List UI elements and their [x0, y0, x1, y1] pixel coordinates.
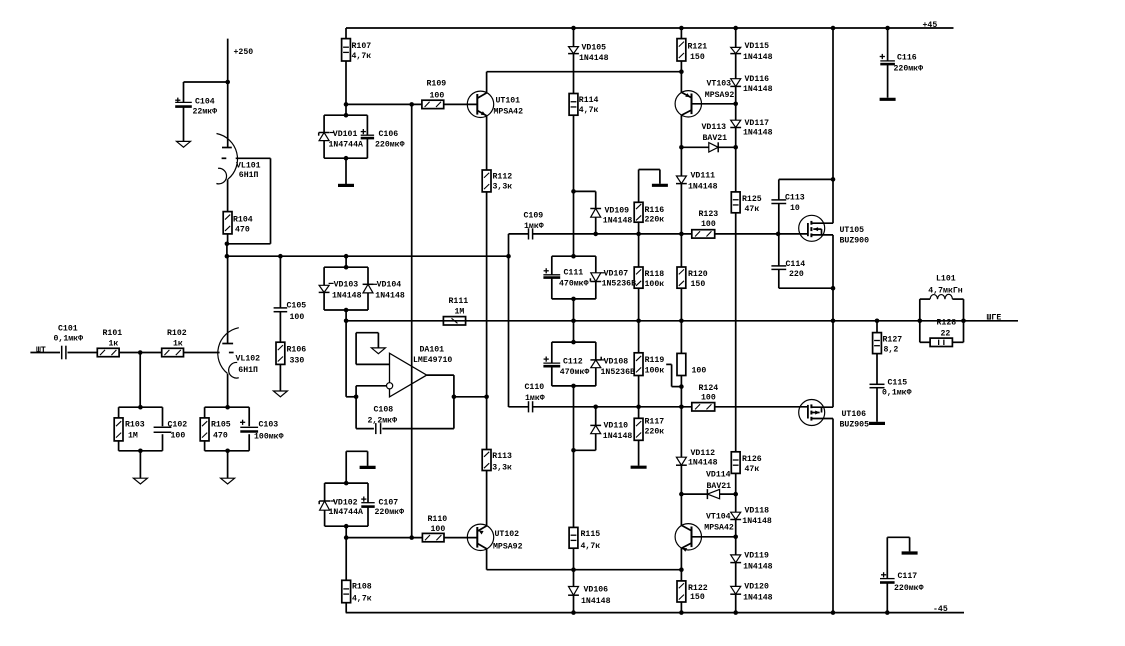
svg-text:VD101: VD101 — [333, 130, 358, 139]
svg-text:100: 100 — [692, 367, 707, 376]
node VD110 gate line — [593, 405, 598, 410]
wire VD112 to VD114 line — [680, 465, 682, 494]
svg-text:C113: C113 — [785, 193, 805, 202]
ground below VD101 box — [338, 158, 354, 185]
svg-text:1к: 1к — [109, 340, 119, 349]
diode VD109 — [590, 206, 632, 225]
svg-text:R109: R109 — [427, 80, 447, 89]
svg-text:MPSA42: MPSA42 — [494, 107, 524, 116]
capacitor C101 — [54, 325, 98, 360]
ground below R106 — [273, 364, 287, 396]
wire VD117 to VD113 node — [735, 128, 737, 148]
ground at non-inverting input — [371, 348, 385, 354]
wire -45 bottom rail — [346, 612, 964, 614]
svg-text:1N4148: 1N4148 — [332, 291, 362, 300]
wire output rail to R119 — [638, 321, 640, 353]
wire VD101 box stub — [345, 104, 347, 115]
svg-text:VD105: VD105 — [582, 44, 607, 53]
node VD101 box bottom — [344, 156, 349, 161]
wire VD119-VD120 — [735, 563, 737, 587]
wire C113 to gate node — [778, 204, 780, 234]
wire VT104 emitter — [680, 548, 682, 569]
wire VD120 to -45 — [735, 594, 737, 612]
node R127 output rail — [875, 319, 880, 324]
wire R118 to output rail — [638, 288, 640, 321]
node gate line 2 column — [679, 405, 684, 410]
wire +45 bus to drain — [832, 28, 834, 223]
wire +250 feed down to VL101 anode — [227, 39, 229, 148]
svg-text:4,7к: 4,7к — [579, 106, 599, 115]
node VT104 base chain — [733, 535, 738, 540]
svg-text:C103: C103 — [259, 421, 279, 430]
ground below R117 — [631, 440, 647, 467]
svg-text:R107: R107 — [352, 42, 372, 51]
node VD109 gate line — [593, 232, 598, 237]
svg-text:BUZ905: BUZ905 — [840, 420, 870, 429]
svg-text:6Н1П: 6Н1П — [239, 171, 259, 180]
node drain bus C113 — [831, 177, 836, 182]
diode VD106 — [568, 586, 610, 606]
wire C109 elbow — [509, 233, 529, 235]
zener VD101 — [319, 130, 363, 149]
node driver column — [484, 395, 489, 400]
wire VD118-VD119 — [735, 520, 737, 555]
svg-text:470мкФ: 470мкФ — [560, 368, 590, 377]
svg-text:8,2: 8,2 — [884, 345, 899, 354]
svg-text:100к: 100к — [645, 367, 665, 376]
wire node A down to R103/C102 — [139, 353, 141, 408]
wire source to output rail — [832, 235, 834, 321]
svg-text:C104: C104 — [195, 98, 215, 107]
node R118 output rail — [636, 319, 641, 324]
svg-text:22мкФ: 22мкФ — [193, 108, 218, 117]
svg-text:C115: C115 — [888, 378, 908, 387]
svg-text:C108: C108 — [374, 405, 394, 414]
node C116 top rail — [885, 26, 890, 31]
node anode line to C105 — [278, 254, 283, 259]
capacitor C115 — [870, 378, 912, 397]
svg-text:1N4148: 1N4148 — [375, 291, 405, 300]
wire elbow to VD110 — [574, 434, 596, 451]
wire R104 node down to anode line node — [225, 244, 230, 259]
svg-text:R115: R115 — [581, 530, 601, 539]
wire UT102 collector line — [487, 549, 682, 570]
diode VD114 BAV21 — [706, 471, 731, 499]
svg-text:VD113: VD113 — [702, 123, 727, 132]
svg-text:VD102: VD102 — [333, 499, 358, 508]
wire R113 to UT102 — [486, 471, 488, 526]
wire gate line to R120 — [680, 234, 682, 267]
wire to VD106 — [573, 570, 575, 587]
svg-text:C116: C116 — [897, 54, 917, 63]
wire coupling column — [508, 234, 510, 407]
node VD110 elbow — [571, 448, 576, 453]
svg-text:220к: 220к — [645, 428, 665, 437]
svg-text:VD117: VD117 — [745, 119, 770, 128]
svg-text:MPSA92: MPSA92 — [705, 91, 735, 100]
svg-text:R125: R125 — [742, 195, 762, 204]
svg-text:C109: C109 — [524, 212, 544, 221]
wire R125 to R126 — [735, 213, 737, 452]
svg-text:VD118: VD118 — [745, 507, 770, 516]
svg-text:R121: R121 — [688, 42, 708, 51]
svg-text:UT106: UT106 — [842, 410, 867, 419]
wire output rail to UT106 drain — [832, 321, 834, 407]
node UT101 collector line end — [679, 69, 684, 74]
zener VD107 — [590, 270, 636, 289]
wire chain from +45 — [735, 28, 737, 47]
node VD102 box bottom — [344, 524, 349, 529]
node L101 left — [918, 319, 923, 324]
wire output to R127 — [876, 321, 878, 333]
wire R119 to gate line 2 — [638, 376, 640, 407]
svg-text:R102: R102 — [167, 329, 187, 338]
node drain bus top rail — [831, 26, 836, 31]
node central bus -45 — [571, 610, 576, 615]
svg-text:6Н1П: 6Н1П — [238, 366, 258, 375]
svg-text:4,7к: 4,7к — [352, 595, 372, 604]
wire VD105 to R114 — [573, 54, 575, 94]
svg-text:C105: C105 — [287, 301, 307, 310]
wire VD102/C107 parallel box — [325, 483, 368, 526]
ground elbow above VD102 box — [346, 451, 375, 483]
wire R116 to gate line — [638, 222, 640, 234]
node anode line to coupling column — [506, 254, 511, 259]
wire VD111 to gate line — [680, 184, 682, 234]
node clamp box bottom — [344, 308, 349, 313]
svg-text:VD119: VD119 — [744, 551, 769, 560]
svg-text:VD111: VD111 — [691, 172, 716, 181]
node R110 line at bus — [409, 535, 414, 540]
wire R107 to node — [345, 61, 347, 104]
capacitor C103 polarized — [240, 420, 284, 442]
capacitor C102 — [154, 421, 188, 441]
wire C110 elbow — [509, 406, 529, 408]
svg-text:VD106: VD106 — [584, 586, 609, 595]
diode VD111 — [676, 172, 718, 192]
node chain VD114 — [733, 492, 738, 497]
svg-text:100мкФ: 100мкФ — [254, 433, 284, 442]
svg-text:1N4148: 1N4148 — [603, 432, 633, 441]
wire central bus to C111 box — [573, 191, 575, 256]
wire R126 to VD114 node — [735, 473, 737, 494]
svg-text:1N4148: 1N4148 — [743, 85, 773, 94]
svg-text:100: 100 — [171, 432, 186, 441]
wire R114 to VD109 node — [573, 115, 575, 191]
capacitor C106 polarized — [361, 129, 405, 149]
svg-text:VD109: VD109 — [605, 206, 630, 215]
label +250 — [234, 48, 254, 57]
svg-text:R123: R123 — [699, 210, 719, 219]
wire to VT104 — [680, 494, 682, 525]
resistor R125 — [731, 192, 761, 214]
wire VD113 line — [681, 146, 735, 148]
wire VD116-VD117 — [735, 86, 737, 120]
node op-amp output — [452, 395, 457, 400]
svg-text:R117: R117 — [645, 418, 665, 427]
wire inverting input — [356, 385, 386, 387]
ground below C104 — [177, 107, 191, 148]
svg-text:MPSA92: MPSA92 — [493, 542, 523, 551]
wire elbow to VD109 — [574, 191, 596, 208]
svg-text:1N4744A: 1N4744A — [329, 140, 363, 149]
wire +45 to VD105 — [573, 28, 575, 47]
svg-text:R108: R108 — [352, 583, 372, 592]
wire UT101 collector — [487, 72, 682, 93]
wire gate line 2 to R117 — [638, 407, 640, 419]
node C111 box top — [571, 254, 576, 259]
svg-text:47к: 47к — [745, 205, 760, 214]
wire C112 box down to VD110 elbow — [573, 386, 575, 450]
svg-text:R116: R116 — [645, 206, 665, 215]
wire output rail to resistor 100 — [680, 321, 682, 354]
transistor UT102 MPSA92 — [467, 524, 522, 551]
node clamp to output rail — [344, 319, 349, 324]
svg-text:100: 100 — [290, 313, 305, 322]
svg-text:1N4148: 1N4148 — [742, 517, 772, 526]
node R121 top rail — [679, 26, 684, 31]
diode VD112 — [676, 449, 718, 467]
wire VT103 base — [692, 103, 736, 105]
wire VL102 anode line — [227, 255, 509, 257]
label -45 — [933, 605, 948, 614]
svg-text:4,7к: 4,7к — [581, 542, 601, 551]
diode VD110 — [590, 422, 632, 442]
svg-text:100: 100 — [701, 393, 716, 402]
diode VD105 — [568, 44, 608, 64]
wire down to R108 — [345, 538, 347, 581]
svg-text:C110: C110 — [525, 383, 545, 392]
svg-text:R124: R124 — [699, 384, 719, 393]
svg-text:1N4148: 1N4148 — [743, 562, 773, 571]
wire gate line 2 to VD112 — [680, 407, 682, 457]
label ШТ input — [36, 346, 46, 355]
MOSFET UT106 BUZ905 — [799, 400, 869, 430]
node VD101 box top — [344, 113, 349, 118]
ground below C116 — [880, 64, 896, 99]
node gate line C113 tap — [776, 232, 781, 237]
op-amp DA101 LME49710 — [390, 345, 453, 397]
resistor R113 — [482, 450, 512, 473]
node R115 bottom — [571, 567, 576, 572]
svg-text:1N4148: 1N4148 — [688, 182, 718, 191]
wire down to C105 — [279, 256, 281, 308]
svg-text:LME49710: LME49710 — [413, 356, 452, 365]
node R120 output rail — [679, 319, 684, 324]
svg-text:3,3к: 3,3к — [492, 464, 512, 473]
svg-text:VL102: VL102 — [236, 355, 261, 364]
node UT106 -45 rail — [831, 610, 836, 615]
resistor R118 — [634, 267, 664, 289]
resistor 100 vertical — [677, 353, 706, 375]
svg-text:150: 150 — [691, 280, 706, 289]
svg-text:1N4744A: 1N4744A — [329, 508, 363, 517]
inverting input bubble — [387, 383, 393, 389]
node VT103 base chain — [733, 102, 738, 107]
svg-text:150: 150 — [690, 53, 705, 62]
svg-text:1N4148: 1N4148 — [603, 217, 633, 226]
svg-text:1N5236B: 1N5236B — [602, 279, 636, 288]
svg-text:150: 150 — [690, 593, 705, 602]
capacitor C110 — [525, 383, 545, 413]
resistor R114 — [569, 94, 598, 116]
wire VT103 collector — [680, 115, 682, 147]
node source bus C114 — [831, 286, 836, 291]
svg-text:220: 220 — [789, 270, 804, 279]
node VD114 line left — [679, 492, 684, 497]
wire UT101 emitter to R112 — [486, 116, 488, 170]
node R119 gate line — [636, 405, 641, 410]
wire gate line 2 — [533, 406, 808, 408]
diode VD120 — [730, 583, 772, 603]
wire VD110 to gate line 2 — [595, 407, 597, 426]
svg-text:ШГЕ: ШГЕ — [987, 314, 1002, 323]
svg-text:100: 100 — [431, 525, 446, 534]
transistor VT103 MPSA92 — [675, 79, 734, 117]
svg-text:1N4148: 1N4148 — [579, 54, 609, 63]
node chain VD113 — [733, 145, 738, 150]
svg-text:R106: R106 — [287, 346, 307, 355]
diode VD104 — [363, 281, 405, 301]
capacitor C104 polarized — [175, 98, 217, 117]
capacitor C116 polarized — [880, 54, 923, 74]
wire C108 loop bottom — [356, 397, 454, 429]
wire op-amp output — [427, 375, 454, 397]
svg-text:VT104: VT104 — [706, 512, 731, 521]
wire R101 to R102, node A — [119, 350, 162, 355]
resistor R105 — [200, 418, 231, 441]
node VD113 line left — [679, 145, 684, 150]
resistor R107 — [342, 28, 372, 61]
svg-text:R122: R122 — [688, 584, 708, 593]
svg-text:470мкФ: 470мкФ — [559, 279, 589, 288]
svg-text:1N4148: 1N4148 — [743, 129, 773, 138]
resistor R112 — [482, 170, 512, 192]
svg-text:R112: R112 — [493, 172, 513, 181]
node inverting branch — [354, 395, 359, 400]
wire VD114 line — [681, 493, 735, 495]
svg-text:UT105: UT105 — [840, 226, 865, 235]
node anode line to clamp — [344, 254, 349, 259]
svg-text:C111: C111 — [564, 269, 584, 278]
svg-text:4,7мкГн: 4,7мкГн — [928, 287, 962, 296]
svg-text:1N4148: 1N4148 — [581, 597, 611, 606]
wire R108 to -45 rail — [345, 603, 347, 613]
wire chain to R125 — [735, 147, 737, 192]
svg-text:1к: 1к — [173, 340, 183, 349]
wire driver column to R113 — [486, 397, 488, 450]
svg-text:VD112: VD112 — [691, 449, 716, 458]
svg-text:C117: C117 — [898, 572, 918, 581]
capacitor C113 — [771, 193, 804, 213]
node clamp box top — [344, 265, 349, 270]
svg-text:UT101: UT101 — [496, 97, 521, 106]
wire C114 to source elbow — [779, 269, 833, 288]
wire VL101 cathode to R104 — [227, 179, 229, 211]
svg-text:C114: C114 — [786, 260, 806, 269]
zener VD102 — [319, 499, 363, 517]
label ШГЕ output — [987, 314, 1002, 323]
svg-text:470: 470 — [213, 432, 228, 441]
node VD102 R110 line — [344, 535, 349, 540]
svg-text:220мкФ: 220мкФ — [375, 508, 405, 517]
capacitor C114 — [771, 260, 805, 279]
wire -45 to C117 — [886, 584, 888, 613]
wire R110 to UT102 base — [444, 537, 477, 539]
wire VT104 base — [692, 536, 736, 538]
svg-text:1М: 1М — [128, 432, 138, 441]
wire VL102 cathode down to R105/C103 — [227, 374, 229, 408]
svg-text:100: 100 — [701, 220, 716, 229]
node VD111 gate line — [679, 232, 684, 237]
ground elbow above C117 — [887, 537, 917, 578]
diode VD118 — [730, 507, 772, 526]
resistor R122 — [677, 581, 708, 602]
svg-text:1N4148: 1N4148 — [743, 593, 773, 602]
wire clamp box stub top — [345, 256, 347, 267]
wire to C104 — [184, 82, 228, 102]
svg-text:VD107: VD107 — [604, 270, 629, 279]
node central bus at +45 — [571, 26, 576, 31]
ground below R105/C103 — [221, 451, 235, 484]
wire to R122 — [680, 570, 682, 581]
node C117 bottom rail — [885, 610, 890, 615]
node chain top rail — [733, 26, 738, 31]
triode VL102 — [218, 256, 260, 378]
wire R122 to -45 — [680, 602, 682, 613]
svg-text:220мкФ: 220мкФ — [894, 584, 924, 593]
wire output rail y=321 — [346, 320, 1018, 322]
wire gate line to MOSFET gate — [778, 233, 808, 235]
wire C105 to R106 — [279, 312, 281, 343]
MOSFET UT105 BUZ900 — [799, 215, 869, 245]
label +45 — [923, 21, 938, 30]
svg-text:+45: +45 — [923, 21, 938, 30]
svg-text:0,1мкФ: 0,1мкФ — [882, 388, 912, 397]
capacitor C112 polarized — [543, 357, 589, 377]
diode VD113 BAV21 — [702, 123, 728, 152]
resistor R109 — [422, 80, 446, 109]
node chain -45 rail — [733, 610, 738, 615]
diode VD115 — [730, 42, 772, 62]
resistor R121 — [677, 28, 707, 62]
node VD109 elbow — [571, 189, 576, 194]
svg-text:R120: R120 — [688, 270, 708, 279]
resistor R110 — [422, 515, 447, 542]
svg-text:R126: R126 — [742, 455, 762, 464]
resistor R116 — [634, 202, 664, 224]
wire R102 to VL102 grid — [184, 352, 220, 354]
node C104 tap — [225, 80, 230, 85]
capacitor C111 polarized — [543, 268, 588, 288]
resistor R120 — [677, 267, 708, 289]
svg-text:C107: C107 — [379, 499, 399, 508]
wire VD101/C106 parallel box — [324, 115, 367, 158]
wire R121 to collector line — [680, 61, 682, 92]
svg-text:10: 10 — [790, 204, 800, 213]
wire gate line to R118 — [638, 234, 640, 267]
wire R103/C102 parallel box — [119, 407, 163, 451]
svg-text:DA101: DA101 — [420, 345, 445, 354]
node L101 right — [961, 319, 966, 324]
svg-text:C106: C106 — [379, 130, 399, 139]
diode VD103 — [319, 281, 362, 301]
wire C111 box to output rail — [573, 299, 575, 321]
wire non-inv ground elbow — [356, 333, 378, 365]
capacitor C117 polarized — [880, 572, 924, 593]
svg-text:C102: C102 — [168, 421, 188, 430]
svg-text:220к: 220к — [645, 216, 665, 225]
